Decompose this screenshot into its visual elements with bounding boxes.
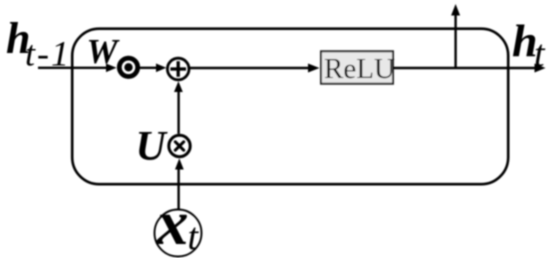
arrowhead into Hadamard node	[106, 64, 117, 73]
svg-text:t: t	[188, 216, 200, 258]
wire: multiply node up to adder	[177, 91, 179, 134]
wire: Hadamard to adder	[140, 67, 158, 69]
label h_t	[512, 15, 546, 75]
wire: input h_{t-1} into cell	[38, 67, 108, 69]
svg-text:t: t	[534, 33, 546, 75]
arrowhead into adder	[156, 64, 166, 73]
wire: ReLU output to h_t	[393, 67, 537, 69]
svg-text:U: U	[136, 124, 169, 170]
label x_t	[156, 187, 200, 258]
RNN cell rounded box	[72, 29, 508, 185]
label h_{t-1}	[6, 14, 71, 74]
wire: adder to ReLU	[190, 67, 310, 69]
arrowhead output h_t	[535, 64, 546, 73]
svg-text:x: x	[156, 187, 189, 258]
Hadamard product node (circle with dot)	[119, 58, 137, 76]
arrowhead up	[451, 4, 460, 16]
arrowhead into multiply bottom	[175, 158, 184, 169]
arrowhead into ReLU	[308, 64, 320, 73]
ReLU activation box	[321, 51, 395, 85]
wire: x_t up to multiply node	[177, 169, 179, 210]
arrowhead into adder bottom	[174, 81, 183, 92]
multiply node (circle with x)	[169, 135, 190, 156]
input node x_t circle	[155, 210, 202, 257]
svg-text:ReLU: ReLU	[324, 53, 395, 85]
adder node (circle with plus)	[167, 58, 189, 80]
svg-text:W: W	[87, 32, 121, 71]
wire: branch going up out of cell	[454, 14, 456, 68]
